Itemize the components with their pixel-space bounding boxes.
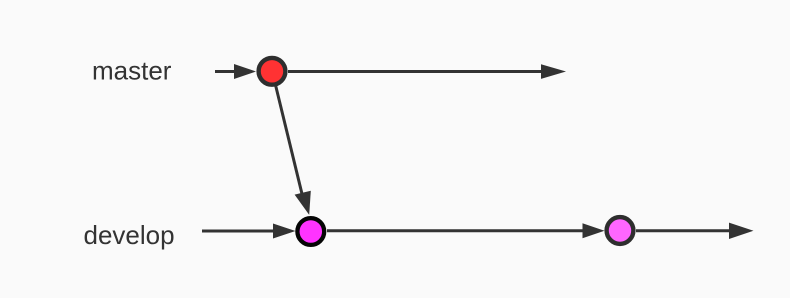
wire: diagonal merge arrow from master to develop: [276, 86, 311, 215]
wire: develop trailing arrow: [636, 223, 754, 239]
node: develop second commit (pink): [607, 217, 634, 244]
wire: arrow into develop commit: [202, 224, 296, 239]
wire: develop branch arrow to second commit: [327, 223, 605, 238]
svg-text:develop: develop: [84, 220, 175, 250]
svg-text:master: master: [92, 56, 172, 86]
wire: arrow into master commit: [215, 64, 256, 79]
node: develop merge commit (magenta): [297, 218, 324, 245]
wire: master branch arrow: [288, 64, 566, 79]
node: master commit (red): [259, 58, 286, 85]
